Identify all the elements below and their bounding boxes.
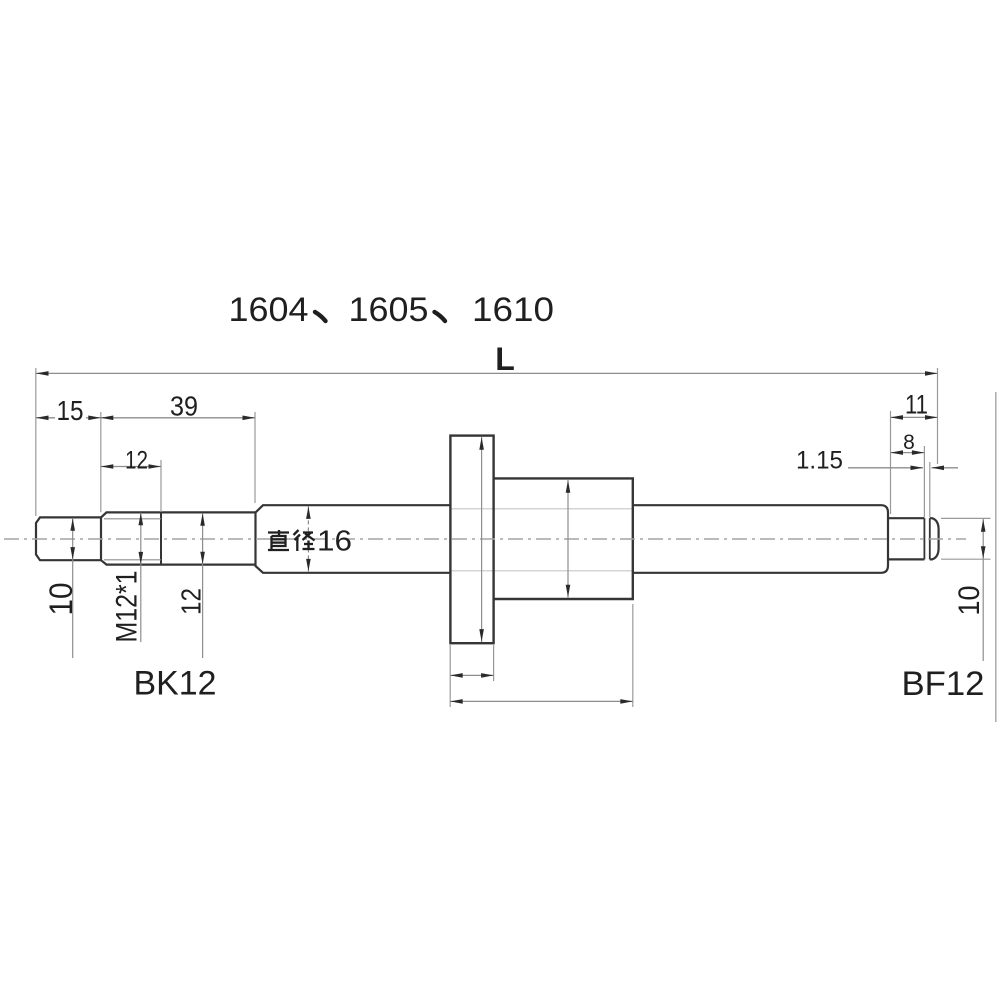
journal 10 extension lines right bbox=[941, 517, 991, 519]
svg-text:1.15: 1.15 bbox=[796, 447, 843, 475]
flange diameter arrow bbox=[481, 437, 483, 642]
svg-text:12: 12 bbox=[125, 447, 148, 475]
dimension 15 line bbox=[36, 417, 55, 419]
svg-text:BK12: BK12 bbox=[134, 665, 217, 703]
right border artifact line bbox=[995, 392, 997, 722]
threaded segment M12 outline bbox=[101, 512, 161, 564]
main shaft body left portion (dia 16) bbox=[256, 505, 451, 573]
title model numbers 1604 1605 1610 bbox=[229, 291, 555, 329]
svg-text:10: 10 bbox=[953, 586, 986, 616]
dimension 1.15 leader right bbox=[932, 467, 959, 469]
svg-text:M12*1: M12*1 bbox=[111, 571, 144, 643]
dimension 12 line (thread length) bbox=[101, 466, 161, 468]
svg-text:16: 16 bbox=[317, 526, 352, 558]
extension line x=161 upper bbox=[160, 460, 162, 512]
svg-text:L: L bbox=[495, 341, 515, 377]
thread minor diameter lines bbox=[104, 518, 161, 520]
svg-text:1604: 1604 bbox=[229, 291, 309, 329]
shaft tip segment (10 dia) bbox=[36, 517, 101, 560]
dimension 8 line bbox=[891, 452, 925, 454]
ball nut body bbox=[494, 478, 633, 599]
dim L extension line right / shaft end bbox=[937, 368, 939, 464]
ideographic comma 1 bbox=[315, 312, 326, 321]
svg-text:11: 11 bbox=[905, 390, 928, 420]
flange width dim line bbox=[450, 674, 493, 676]
svg-text:12: 12 bbox=[176, 588, 207, 615]
svg-text:1610: 1610 bbox=[472, 291, 554, 329]
main shaft diameter arrow dashed bbox=[307, 506, 309, 571]
extension line x=255 bbox=[254, 412, 256, 503]
nut length dim line bbox=[450, 700, 633, 702]
tip right edge bbox=[100, 517, 102, 560]
thread diameter arrow bbox=[140, 513, 142, 642]
svg-text:15: 15 bbox=[57, 395, 84, 426]
circlip groove right edge bbox=[929, 518, 931, 559]
glyph jing bbox=[294, 530, 315, 551]
dimension L line bbox=[36, 372, 938, 374]
main shaft body right portion (dia 16) bbox=[633, 505, 888, 573]
journal right (dia 10) bbox=[888, 517, 924, 519]
svg-text:1605: 1605 bbox=[349, 291, 429, 329]
dimension 1.15 leader left bbox=[848, 467, 923, 469]
ball nut flange bbox=[450, 436, 493, 644]
tip diameter arrow bbox=[72, 518, 74, 658]
svg-text:8: 8 bbox=[903, 431, 915, 454]
extension line x=890.5 bbox=[890, 411, 892, 514]
svg-text:10: 10 bbox=[43, 583, 79, 616]
extension line x=101 bbox=[100, 412, 102, 512]
journal diameter dim line bbox=[982, 519, 984, 661]
circlip groove left edge bbox=[923, 518, 925, 559]
thread segment boundary bbox=[160, 512, 162, 564]
extension line x=924.4 upper bbox=[923, 446, 925, 517]
dim L extension line left bbox=[35, 368, 37, 516]
ideographic comma 2 bbox=[435, 312, 446, 321]
dimension 39 line bbox=[101, 417, 255, 419]
extension line x=929.8 upper bbox=[929, 462, 931, 517]
end cap bbox=[930, 518, 939, 559]
glyph zhi bbox=[268, 530, 289, 550]
nut length extension line right bbox=[632, 604, 634, 707]
12mm segment diameter arrow bbox=[202, 513, 204, 658]
label zhijing 16 : hand drawn CJK bbox=[268, 530, 315, 551]
shaft 12mm segment bbox=[161, 511, 255, 513]
faint shaft lines through nut bbox=[451, 508, 632, 510]
svg-text:39: 39 bbox=[170, 391, 198, 422]
dimension 11 line bbox=[891, 416, 938, 418]
nut diameter arrow bbox=[567, 480, 569, 598]
flange width extension lines bbox=[449, 645, 451, 707]
centerline bbox=[4, 538, 966, 540]
svg-text:BF12: BF12 bbox=[902, 665, 985, 703]
